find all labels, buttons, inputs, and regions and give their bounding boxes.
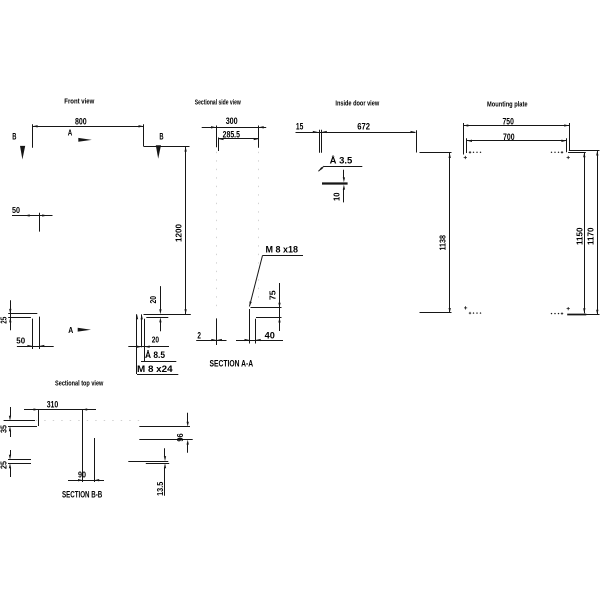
dim line 35 lower [10, 431, 12, 437]
svg-text:25: 25 [0, 317, 9, 324]
hole row plus bottom left [469, 312, 471, 314]
arrow 672 right [411, 131, 416, 133]
extension line top right [144, 146, 190, 148]
leader M 8 x18 [249, 256, 262, 307]
top view right edge line 1 [139, 426, 190, 428]
svg-text:1150: 1150 [575, 227, 585, 245]
arrow 285.5 left [219, 138, 224, 140]
svg-text:310: 310 [47, 399, 59, 409]
arrow 20h left [137, 346, 142, 348]
section marker B right [156, 145, 161, 159]
arrow 1170 bottom [596, 310, 598, 315]
arrow 50 mid right [42, 214, 47, 216]
arrow leader M8x24 [136, 314, 138, 319]
section marker B left [20, 146, 25, 160]
underline M 8 x24 [137, 374, 178, 376]
extension 300 left [216, 126, 218, 148]
dim line 13.5 lower [164, 468, 166, 496]
svg-text:1200: 1200 [174, 224, 184, 242]
hole dot br2 [558, 313, 559, 314]
hole mark plus top left [464, 156, 467, 159]
front view bottom edge left [8, 313, 37, 315]
arrow 1200 top [184, 147, 186, 152]
extension 1138 bottom [420, 312, 452, 314]
svg-text:20: 20 [148, 296, 158, 304]
dim line 750 [463, 125, 569, 127]
svg-text:672: 672 [357, 122, 370, 132]
svg-text:40: 40 [265, 331, 275, 341]
svg-text:Inside door view: Inside door view [335, 98, 379, 107]
hole row plus bottom right [561, 312, 563, 314]
svg-text:SECTION B-B: SECTION B-B [62, 490, 102, 500]
svg-text:B: B [12, 132, 16, 143]
extension 1138 top [420, 152, 452, 154]
dim line 75 [279, 283, 281, 331]
arrow 50bl right [39, 345, 44, 347]
svg-text:M 8 x24: M 8 x24 [137, 364, 173, 374]
top view lower edge line 2 [146, 463, 169, 465]
svg-text:1170: 1170 [586, 227, 596, 245]
side view flange edge 1 [249, 309, 251, 344]
side view flange line 1 [251, 307, 282, 309]
arrow 700 left [467, 140, 472, 142]
arrow 13.5 up [164, 463, 166, 468]
arrow 10 down [343, 177, 345, 182]
dim line 90 [68, 480, 104, 482]
top view edge line 2 [8, 426, 37, 428]
arrow 1200 bottom [184, 309, 186, 314]
svg-text:A: A [68, 325, 74, 335]
dim line 40 [236, 340, 283, 342]
dim line 1138 [449, 153, 451, 313]
svg-text:Å 3.5: Å 3.5 [330, 155, 353, 165]
dim line 25 lower [10, 468, 12, 477]
hole dot tr2 [558, 152, 559, 153]
arrow 15 right [322, 131, 327, 133]
extension 300 right [258, 126, 260, 148]
svg-text:10: 10 [331, 192, 341, 201]
side view flange line 2 [256, 317, 282, 319]
arrow leader 20 [141, 314, 143, 319]
hidden edge left [216, 152, 218, 308]
top view right edge line 2 [139, 439, 192, 441]
tick dim 2 [216, 318, 218, 345]
svg-text:SECTION A-A: SECTION A-A [210, 359, 254, 369]
svg-text:Sectional top view: Sectional top view [55, 378, 103, 387]
svg-text:300: 300 [226, 116, 238, 126]
front view bottom edge left 2 [8, 317, 31, 319]
plinth edge left 2 [39, 317, 41, 349]
arrow 35 up [9, 426, 11, 431]
leader dia 3.5 horizontal [324, 166, 362, 168]
dim line 1150 [584, 152, 586, 313]
arrow 800 left [33, 125, 38, 127]
arrow 50 mid left [25, 214, 30, 216]
dim line 310 [24, 409, 96, 411]
arrow 1138 bottom [449, 308, 451, 313]
side view flange edge 2 [255, 319, 257, 344]
svg-text:2: 2 [197, 331, 201, 341]
arrow leader M 8 x18 [249, 301, 251, 306]
dim line 10 upper [343, 170, 345, 178]
dim line 2 [196, 340, 226, 342]
svg-text:75: 75 [268, 290, 278, 300]
svg-text:1138: 1138 [438, 235, 448, 251]
arrow 300 right [259, 126, 264, 128]
arrow 90 right [94, 479, 99, 481]
hole dot tl1 [476, 152, 477, 153]
front view bottom edge right [144, 314, 191, 316]
svg-text:Sectional side view: Sectional side view [195, 97, 241, 106]
arrow 300 left [211, 126, 216, 128]
leader line 20 [141, 314, 143, 347]
hole dot bl2 [480, 312, 481, 313]
hole dot tr0 [551, 152, 552, 153]
dim line 25 upper [10, 450, 12, 455]
arrow 285.5 right [254, 138, 259, 140]
arrow 2 right [217, 339, 222, 341]
plate bottom edge line 1170 [586, 314, 600, 316]
dim line 96 upper [187, 413, 189, 423]
tick 50 mid [39, 213, 41, 232]
arrow 96 down [187, 422, 189, 427]
svg-text:A: A [68, 128, 73, 138]
leader line dia 8.5 [144, 319, 146, 362]
door sheet section [322, 182, 348, 184]
arrow 700 right [561, 140, 566, 142]
svg-text:90: 90 [78, 470, 86, 480]
arrow 96 up [187, 440, 189, 445]
extension 310 right and edge 90 left [82, 410, 84, 483]
underline M 8 x18 [263, 255, 304, 257]
svg-text:50: 50 [16, 336, 25, 346]
dim line 285.5 [219, 138, 259, 140]
extension 672 right [416, 130, 418, 152]
svg-text:20: 20 [152, 335, 159, 345]
svg-text:800: 800 [75, 116, 87, 126]
arrow 25 top [9, 309, 11, 314]
arrow 50bl left [27, 345, 32, 347]
dim line 800 [33, 126, 144, 128]
top view edge line 1 [4, 420, 35, 422]
hole dot br1 [554, 313, 555, 314]
section marker A top [78, 138, 92, 142]
svg-text:Front view: Front view [64, 97, 94, 106]
arrow 20v down [159, 309, 161, 314]
hole mark plus top right [567, 156, 570, 159]
arrow 1138 top [449, 153, 451, 158]
arrow 1150 top [583, 152, 585, 157]
dim line 50 mid [12, 215, 53, 217]
svg-text:35: 35 [0, 425, 9, 433]
svg-text:13.5: 13.5 [155, 481, 165, 495]
hole dot bl0 [473, 312, 474, 313]
dim line 15 and 672 [296, 132, 416, 134]
hole dot tr1 [554, 152, 555, 153]
top view edge line 4 [8, 463, 31, 465]
arrow leader dia 3.5 [318, 167, 322, 171]
leader dia 3.5 slant [318, 166, 324, 171]
dim line 1170 [597, 151, 599, 315]
dim line 700 [467, 140, 566, 142]
front view bottom edge right 2 [146, 317, 168, 319]
hole dot bl1 [476, 312, 477, 313]
plate bottom edge line 1150 [567, 314, 586, 316]
arrow 40 right [256, 339, 261, 341]
dim line 35 upper [10, 407, 12, 416]
svg-text:25: 25 [0, 461, 9, 469]
arrow 90 left [78, 479, 83, 481]
top view hidden edge [36, 420, 140, 422]
extension line 800 left [32, 124, 34, 147]
plate top edge line 1150 [568, 152, 586, 154]
svg-text:96: 96 [175, 433, 185, 442]
arrow 1150 bottom [583, 308, 585, 313]
extension 750 left [463, 123, 465, 155]
arrow 2 left [211, 339, 216, 341]
section marker A bottom [78, 328, 91, 332]
arrow 10 up [343, 185, 345, 190]
arrow 35 down [9, 416, 11, 421]
leader line M8x24 [136, 314, 138, 374]
edge 90 right [94, 438, 96, 482]
hole row plus top right [561, 151, 563, 153]
extension 285.5 left [218, 138, 220, 152]
dim line 96 lower [187, 444, 189, 453]
arrow 25tv down [9, 455, 11, 460]
arrow 20h right [145, 346, 150, 348]
arrow 25 bottom [9, 317, 11, 322]
extension line 800 right [143, 124, 145, 146]
arrow 750 right [564, 124, 569, 126]
extension 750 right [569, 123, 571, 150]
extension 700 left [466, 138, 468, 153]
arrow 15 left [313, 131, 318, 133]
svg-text:Mounting plate: Mounting plate [487, 100, 528, 109]
arrow 75 bottom [278, 318, 280, 323]
arrow 750 left [463, 124, 468, 126]
dim line 50 bottom left [17, 346, 54, 348]
arrow 25tv up [9, 463, 11, 468]
svg-text:Å 8.5: Å 8.5 [145, 350, 165, 360]
dim line 25 bottom left [10, 300, 12, 330]
hole dot tl0 [473, 152, 474, 153]
arrow 20v up [159, 317, 161, 322]
hole mark plus bottom right [567, 307, 570, 310]
svg-text:15: 15 [296, 121, 303, 131]
dim line 1200 [185, 147, 187, 315]
arrow 1170 top [596, 151, 598, 156]
underline dia 8.5 [141, 361, 176, 363]
hole dot tl2 [480, 152, 481, 153]
extension 310 left [38, 410, 40, 427]
dim line 20 vertical lower [160, 322, 162, 332]
arrow 75 top [278, 303, 280, 308]
top view edge line 3 [8, 459, 31, 461]
door hinge edge 1 [319, 130, 321, 153]
dim line 20 vertical upper [160, 286, 162, 310]
dim line 300 [202, 127, 267, 129]
door hinge edge 2 [321, 130, 323, 153]
svg-text:50: 50 [12, 205, 20, 215]
dim line 10 lower [343, 189, 345, 202]
hidden edge right [258, 152, 260, 303]
svg-text:M 8 x18: M 8 x18 [266, 245, 299, 255]
hole dot br0 [551, 313, 552, 314]
top view lower edge line 1 [128, 461, 168, 463]
plinth edge left 1 [32, 319, 34, 349]
hole row plus top left [469, 151, 471, 153]
extension 700 right [566, 138, 568, 152]
hole mark plus bottom left [464, 306, 467, 309]
dim line 13.5 upper [164, 448, 166, 456]
arrow 13.5 down [164, 456, 166, 461]
arrow 310 left [34, 408, 39, 410]
svg-text:B: B [159, 132, 163, 143]
arrow 40 left [245, 339, 250, 341]
arrow 800 right [139, 125, 144, 127]
arrow 310 right [82, 408, 87, 410]
dim line 20 horizontal [128, 346, 169, 348]
plate top edge line 1170 [569, 150, 600, 152]
